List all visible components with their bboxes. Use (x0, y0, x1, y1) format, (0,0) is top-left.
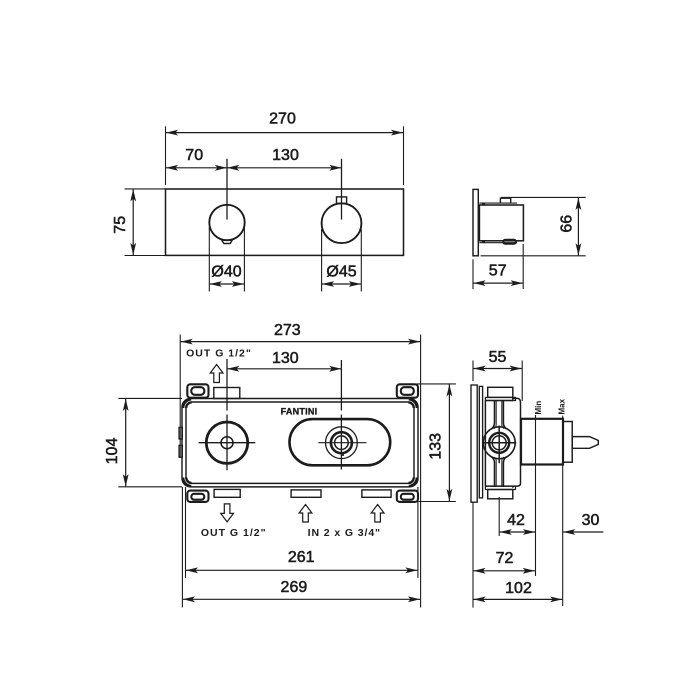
svg-text:130: 130 (272, 147, 299, 164)
svg-text:Ø45: Ø45 (326, 263, 356, 280)
svg-text:102: 102 (505, 580, 532, 597)
svg-text:269: 269 (281, 579, 308, 596)
svg-text:75: 75 (112, 216, 129, 234)
svg-text:OUT G 1/2": OUT G 1/2" (201, 527, 267, 539)
svg-text:Max: Max (558, 398, 567, 414)
svg-text:OUT G 1/2": OUT G 1/2" (186, 348, 252, 360)
svg-text:270: 270 (269, 110, 296, 127)
svg-text:57: 57 (489, 263, 507, 280)
svg-text:30: 30 (582, 512, 600, 529)
svg-text:Min: Min (534, 401, 543, 415)
svg-text:66: 66 (559, 215, 576, 233)
svg-text:FANTINI: FANTINI (281, 407, 318, 417)
svg-text:130: 130 (272, 350, 299, 367)
svg-text:261: 261 (288, 549, 315, 566)
svg-text:70: 70 (185, 147, 203, 164)
svg-text:IN 2 x G 3/4": IN 2 x G 3/4" (308, 527, 381, 539)
svg-text:273: 273 (274, 322, 301, 339)
svg-text:133: 133 (428, 433, 445, 460)
svg-text:42: 42 (507, 512, 525, 529)
svg-text:Ø40: Ø40 (211, 263, 241, 280)
svg-text:55: 55 (489, 349, 507, 366)
svg-text:104: 104 (104, 438, 121, 465)
svg-text:72: 72 (496, 550, 514, 567)
